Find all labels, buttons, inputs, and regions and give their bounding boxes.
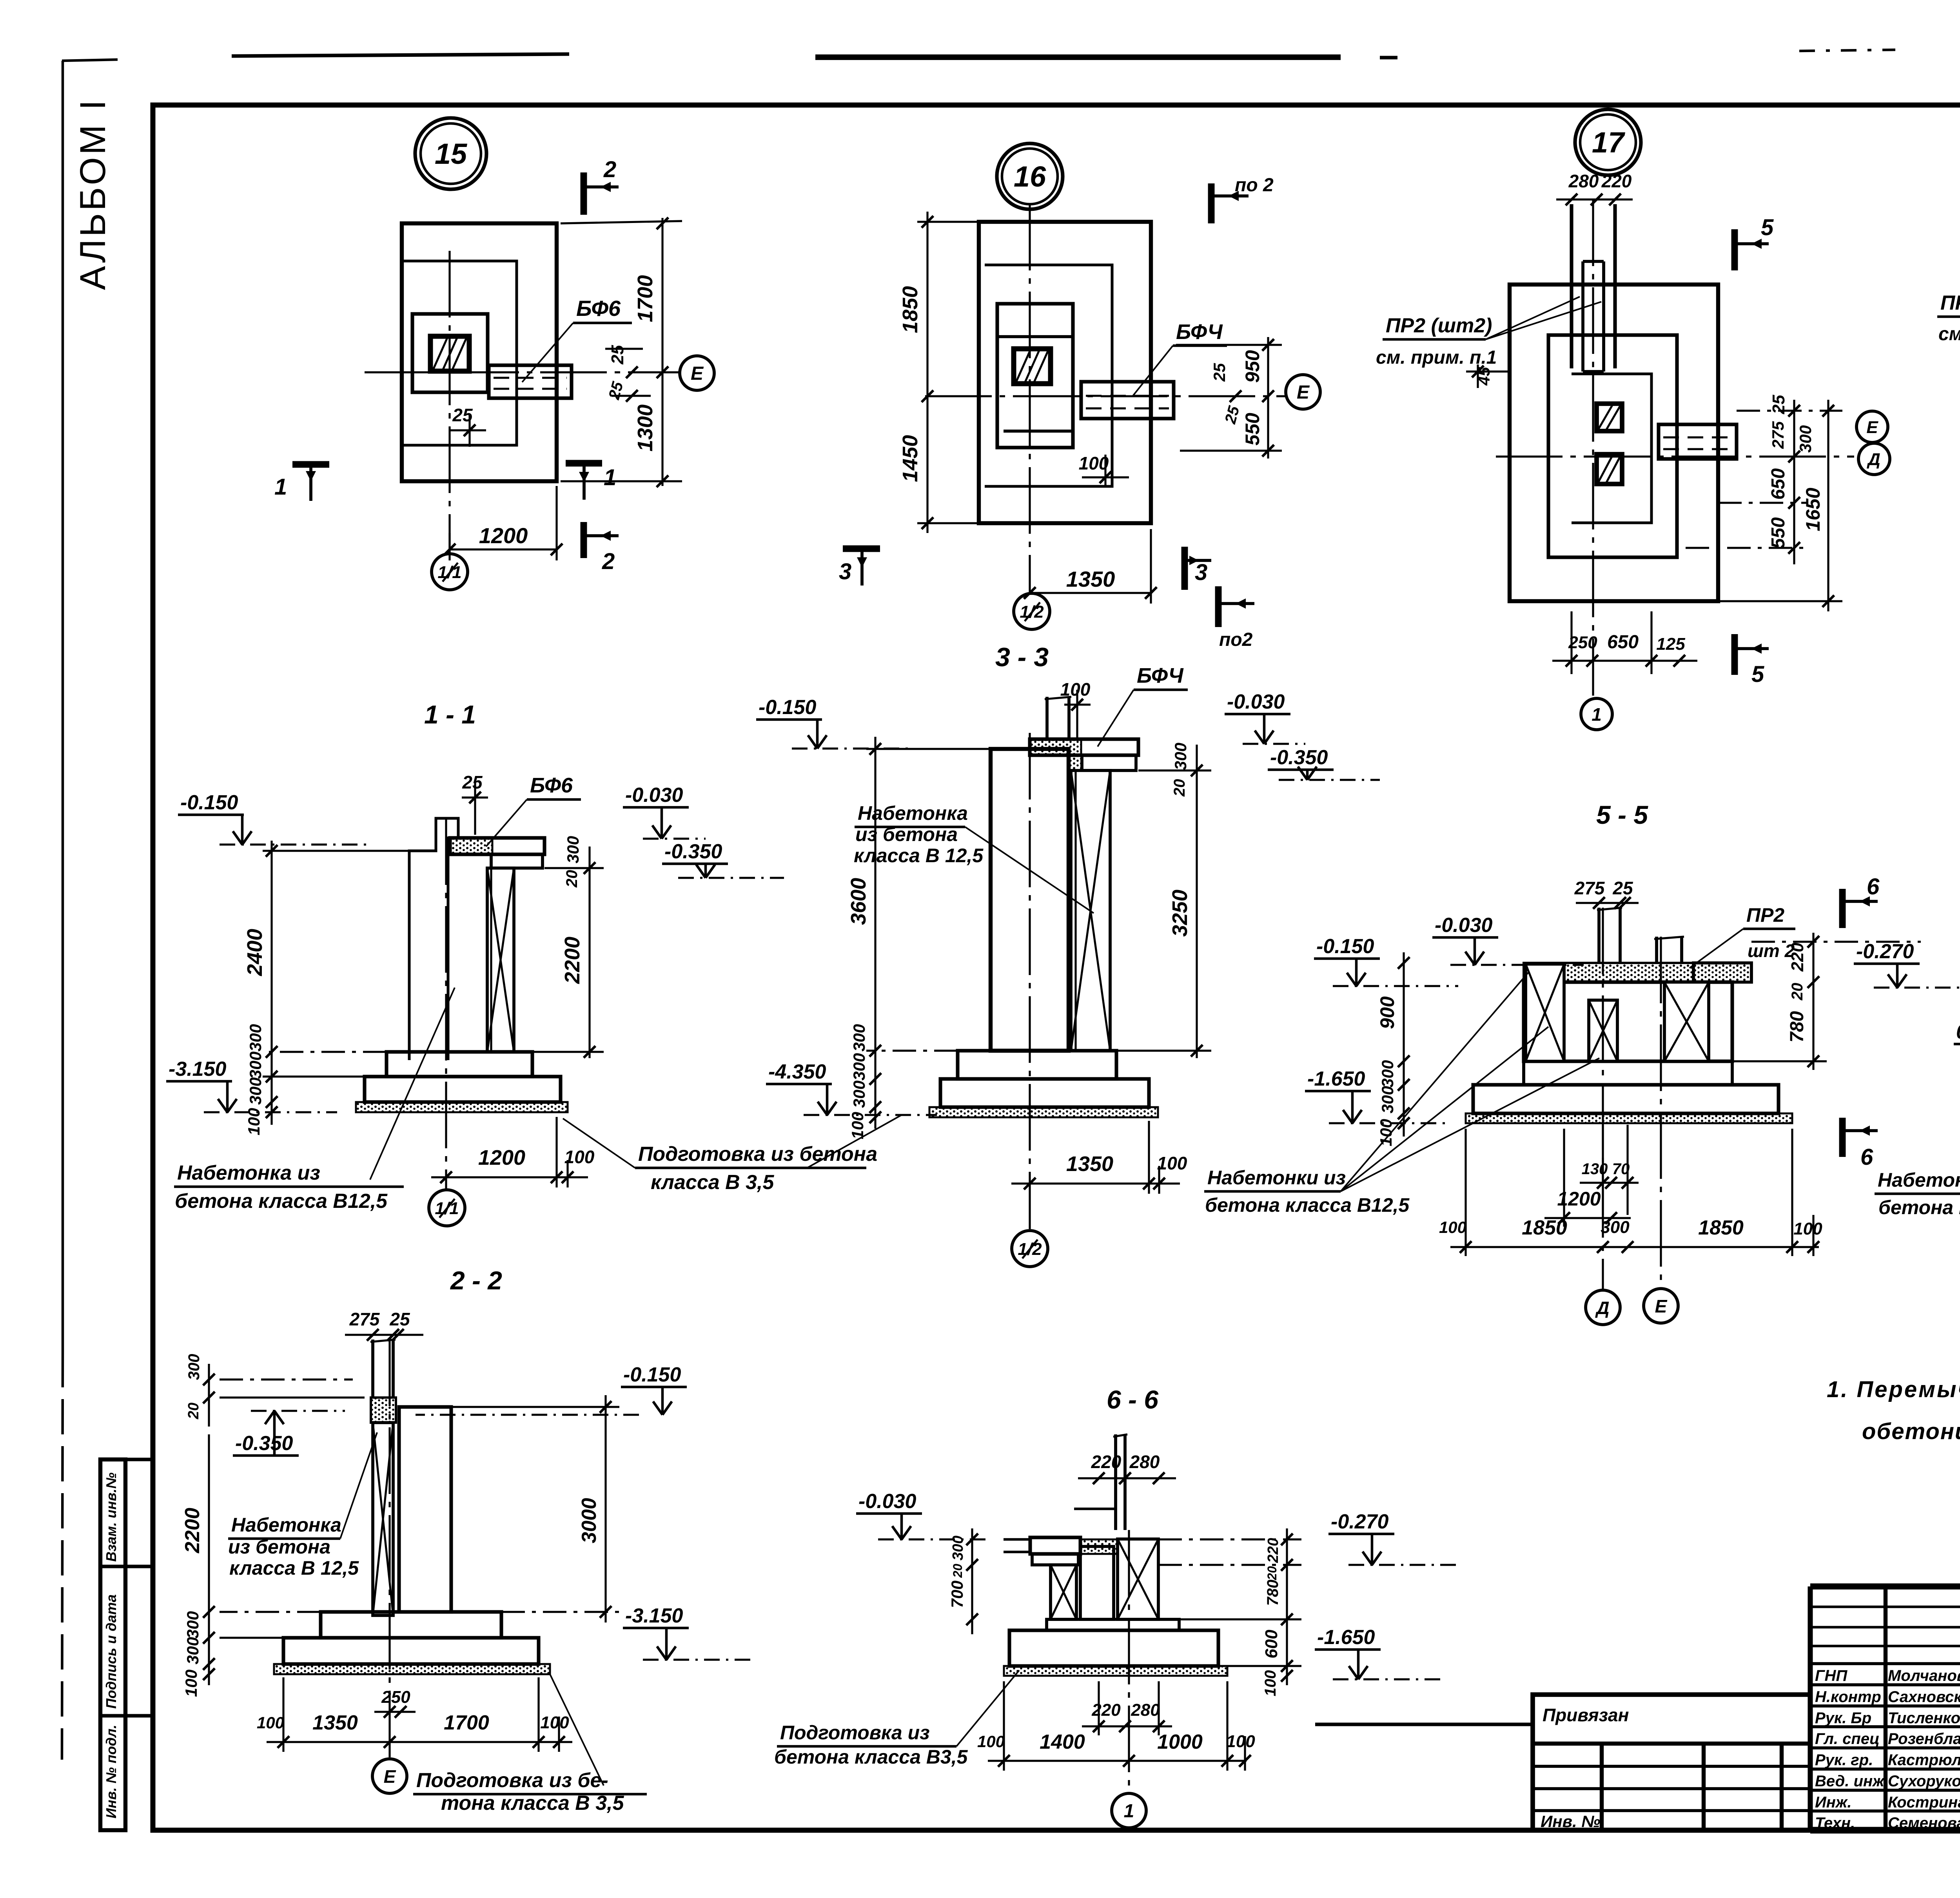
section 5-5 dim 1200 [1544, 1217, 1631, 1219]
svg-text:-3.150: -3.150 [169, 1058, 227, 1080]
svg-text:280: 280 [1568, 171, 1599, 191]
plan 15 bubble [415, 118, 486, 189]
svg-text:2200: 2200 [181, 1508, 204, 1554]
plan 16 inner step outline [997, 304, 1073, 448]
plan 15 inner step outline [412, 314, 488, 392]
section 6-6 beam left [1030, 1537, 1080, 1554]
section 3-3 bottom dim [1011, 1182, 1180, 1184]
section 6-6 right dim line [1286, 1528, 1288, 1685]
svg-text:20: 20 [185, 1403, 202, 1419]
svg-text:-1.650: -1.650 [1307, 1068, 1365, 1090]
svg-text:Рук. гр.: Рук. гр. [1815, 1751, 1873, 1769]
svg-text:Набетонки из: Набетонки из [1878, 1169, 1960, 1191]
section 1-1 beam BF6 [450, 838, 544, 854]
plan 15 dim 1700/1300 extension top [561, 221, 682, 223]
svg-text:300: 300 [1796, 425, 1815, 453]
outer thin border left [62, 61, 64, 1352]
svg-text:16: 16 [1014, 160, 1046, 193]
section 5-5 crossed col mid [1589, 1000, 1617, 1061]
svg-text:Привязан: Привязан [1543, 1705, 1629, 1725]
svg-text:Сахновская: Сахновская [1888, 1688, 1960, 1706]
outer border top-left tick [62, 60, 118, 61]
section 5-5 axis bubble E [1644, 1289, 1678, 1323]
svg-text:1700: 1700 [444, 1711, 489, 1734]
plan 17 hatched column b [1597, 454, 1622, 484]
svg-text:20: 20 [563, 870, 581, 888]
section 5-5 right dim line [1812, 933, 1814, 1070]
svg-text:300: 300 [1601, 1218, 1630, 1237]
plan 17 beam right [1659, 424, 1737, 459]
svg-text:бетона класса В3,5: бетона класса В3,5 [774, 1746, 968, 1768]
svg-text:БФ6: БФ6 [530, 774, 573, 797]
svg-text:2 - 2: 2 - 2 [450, 1266, 502, 1295]
svg-text:ПР3 (шт.2): ПР3 (шт.2) [1940, 292, 1960, 314]
svg-text:125: 125 [1656, 634, 1685, 654]
svg-text:25: 25 [462, 772, 483, 792]
svg-text:3 - 3: 3 - 3 [995, 642, 1049, 672]
svg-text:класса В 3,5: класса В 3,5 [651, 1171, 774, 1194]
svg-text:25: 25 [389, 1309, 410, 1329]
svg-text:Вед. инж: Вед. инж [1815, 1773, 1885, 1790]
svg-text:обетонировать.: обетонировать. [1862, 1419, 1960, 1444]
plan 15 axis bubble E [680, 356, 714, 390]
svg-text:100: 100 [1262, 1670, 1279, 1697]
section 2-2 narrow column [373, 1423, 393, 1615]
svg-text:1350: 1350 [312, 1711, 358, 1734]
plan 17 axis bubble E [1857, 411, 1888, 442]
svg-text:1650: 1650 [1802, 488, 1824, 531]
section 5-5 section mark 6 bottom [1839, 1118, 1846, 1157]
section 1-1 right ext lines [544, 867, 604, 869]
plan 17 anchor slot outer [1570, 204, 1573, 368]
svg-text:Кастрюлин: Кастрюлин [1888, 1751, 1960, 1769]
plan 16 left dim ext [917, 221, 979, 223]
plan 17 right dim line b [1827, 400, 1829, 611]
svg-text:Рук. Бр: Рук. Бр [1815, 1709, 1871, 1727]
svg-text:1850: 1850 [898, 286, 922, 333]
svg-text:300: 300 [950, 1535, 966, 1560]
svg-text:300: 300 [246, 1051, 265, 1079]
svg-text:-4.350: -4.350 [768, 1060, 826, 1083]
plan 16 vertical axis [1029, 204, 1031, 593]
section 5-5 base slab [1473, 1085, 1779, 1113]
svg-text:Инж.: Инж. [1815, 1794, 1852, 1811]
svg-text:Молчанов: Молчанов [1888, 1667, 1960, 1684]
section 2-2 right dim line [604, 1395, 606, 1622]
top margin dashes [1799, 50, 1895, 51]
section 3-3 column [991, 749, 1069, 1051]
svg-text:220: 220 [1265, 1538, 1281, 1563]
svg-text:100: 100 [257, 1713, 284, 1732]
top margin line segment 2 thick [815, 54, 1341, 60]
title block grid [1810, 1583, 1960, 1590]
section 1-1 base slab [365, 1077, 561, 1102]
plan 15 dim ext bottom [561, 480, 682, 482]
svg-text:100: 100 [1439, 1218, 1466, 1236]
svg-text:1: 1 [274, 474, 287, 500]
svg-text:950: 950 [1241, 350, 1263, 383]
svg-text:Набетонка: Набетонка [858, 802, 968, 824]
section 3-3 post top [1045, 697, 1049, 739]
svg-text:Набетонки из: Набетонки из [1207, 1167, 1346, 1189]
svg-text:по 2: по 2 [1235, 175, 1274, 196]
plan 15 vertical axis [448, 251, 450, 553]
svg-text:Н.контр: Н.контр [1815, 1688, 1881, 1706]
section 6-6 post [1114, 1434, 1117, 1530]
svg-text:5: 5 [1751, 662, 1764, 687]
svg-text:Тисленко: Тисленко [1888, 1709, 1960, 1727]
svg-text:-0.350: -0.350 [235, 1432, 293, 1455]
section 1-1 lean concrete layer [356, 1102, 568, 1112]
svg-text:1850: 1850 [1522, 1216, 1567, 1239]
plan 15 column hatched [430, 336, 469, 371]
svg-text:300: 300 [183, 1637, 202, 1664]
section 6-6 center column [1080, 1546, 1114, 1619]
section 3-3 lean concrete layer [929, 1107, 1158, 1117]
svg-text:550: 550 [1768, 517, 1789, 549]
plan 16 bottom dim [1030, 592, 1151, 594]
svg-text:1850: 1850 [1698, 1216, 1744, 1239]
svg-text:780: 780 [1264, 1580, 1281, 1606]
svg-text:бетона класса В12,5: бетона класса В12,5 [1205, 1194, 1410, 1216]
svg-text:АЛЬБОМ I: АЛЬБОМ I [73, 98, 113, 290]
svg-text:-0.030: -0.030 [858, 1490, 916, 1513]
svg-text:220: 220 [1091, 1700, 1121, 1720]
section 6-6 lean layer [1004, 1666, 1227, 1676]
svg-text:3: 3 [1195, 560, 1207, 585]
svg-text:-0.350: -0.350 [1270, 746, 1328, 769]
svg-text:1350: 1350 [1066, 1152, 1113, 1176]
svg-text:20: 20 [1171, 779, 1188, 797]
svg-text:100: 100 [182, 1670, 200, 1697]
section 5-5 lean layer [1466, 1113, 1792, 1123]
svg-text:-0.150: -0.150 [759, 696, 817, 719]
svg-text:Техн.: Техн. [1815, 1815, 1855, 1832]
svg-text:1: 1 [1124, 1801, 1134, 1822]
section 6-6 left dim line [971, 1528, 973, 1634]
svg-text:275: 275 [1574, 878, 1605, 898]
svg-text:Кострина: Кострина [1888, 1794, 1960, 1811]
section 5-5 crossed col right [1664, 982, 1709, 1061]
plan 17 middle step outline [1548, 335, 1677, 557]
plan 17 anchor slot inner [1581, 261, 1584, 372]
plan 15 section mark 2 top [581, 172, 587, 215]
svg-text:17: 17 [1592, 126, 1626, 159]
svg-text:тона класса В 3,5: тона класса В 3,5 [441, 1792, 624, 1815]
section 1-1 left ext lines [263, 850, 409, 852]
section 1-1 axis line [445, 818, 447, 1189]
svg-text:Е: Е [1297, 382, 1310, 403]
plan 16 beam BF4 [1081, 382, 1174, 419]
section 5-5 left dim line [1403, 952, 1405, 1137]
svg-text:Розенблат: Розенблат [1888, 1730, 1960, 1748]
svg-text:Набетонка: Набетонка [231, 1514, 341, 1536]
section 1-1 right dim line [588, 847, 590, 1058]
svg-text:300: 300 [564, 836, 582, 863]
section 5-5 cap row [1524, 963, 1751, 982]
svg-text:100: 100 [1157, 1153, 1187, 1173]
section 3-3 left ext lines [866, 748, 991, 750]
svg-text:3: 3 [839, 559, 851, 584]
svg-text:2200: 2200 [561, 937, 584, 984]
section 1-1 cap stipple [448, 839, 492, 854]
svg-text:Подготовка из: Подготовка из [780, 1722, 930, 1744]
section 2-2 step [321, 1612, 501, 1638]
plan 15 section mark 1 right [566, 460, 602, 467]
section 6-6 base slab [1009, 1630, 1218, 1666]
plan 16 left dim line [926, 212, 928, 533]
plan 16 section mark 3 right [1181, 547, 1188, 590]
svg-text:3600: 3600 [847, 878, 870, 925]
section 1-1 step [387, 1052, 532, 1077]
svg-text:600: 600 [1262, 1630, 1281, 1659]
svg-text:0.350: 0.350 [1956, 1021, 1960, 1043]
plan 17 bottom dims [1552, 660, 1697, 662]
section 3-3 base slab [940, 1079, 1149, 1107]
svg-text:6: 6 [1860, 1144, 1873, 1170]
svg-text:5: 5 [1761, 215, 1774, 240]
section 2-2 hatched cap [371, 1398, 396, 1423]
svg-text:Д: Д [1595, 1298, 1609, 1318]
plan 17 bottom ext lines [1570, 611, 1572, 674]
plan 15 beam BF6 [489, 365, 572, 398]
section 6-6 bottom dim [988, 1760, 1247, 1762]
section 1-1 left dim line [270, 841, 272, 1125]
svg-text:1000: 1000 [1157, 1731, 1203, 1753]
svg-text:Е: Е [1866, 418, 1878, 437]
svg-text:300: 300 [1171, 743, 1190, 770]
svg-text:300: 300 [850, 1080, 868, 1108]
top margin line segment 3 [1380, 56, 1397, 59]
svg-text:-0.030: -0.030 [625, 784, 683, 807]
svg-text:см. прим. п1: см. прим. п1 [1938, 324, 1960, 344]
svg-text:300: 300 [850, 1024, 868, 1051]
plan 17 bubble [1575, 109, 1641, 175]
plan 15 horizontal axis [365, 371, 680, 373]
svg-text:Е: Е [691, 363, 704, 384]
svg-text:-0.030: -0.030 [1435, 914, 1493, 937]
section 5-5 axis lines [1602, 908, 1604, 1289]
section 6-6 cap stipple [1080, 1539, 1118, 1554]
svg-text:БФЧ: БФЧ [1137, 664, 1184, 687]
svg-text:550: 550 [1241, 413, 1263, 446]
svg-text:1400: 1400 [1040, 1731, 1085, 1753]
svg-text:из бетона: из бетона [228, 1536, 330, 1558]
svg-text:Инв. №: Инв. № [1541, 1812, 1600, 1831]
svg-text:650: 650 [1607, 632, 1639, 653]
plan 15 axis bubble 1/1 [432, 554, 468, 590]
svg-text:по2: по2 [1219, 629, 1253, 650]
svg-text:300: 300 [183, 1611, 202, 1639]
plan 15 section mark 2 bottom [581, 522, 587, 558]
privyazan table grid [1533, 1695, 1810, 1830]
plan 16 horizontal axis [925, 395, 1286, 397]
svg-text:бетона класса В12,5: бетона класса В12,5 [175, 1190, 388, 1213]
section 5-5 cap blockright [1693, 963, 1751, 982]
svg-text:20: 20 [1789, 983, 1806, 1001]
svg-text:300: 300 [1378, 1086, 1397, 1113]
svg-text:1: 1 [1592, 704, 1602, 725]
svg-text:-3.150: -3.150 [625, 1604, 683, 1627]
plan 16 axis bubble E [1286, 375, 1320, 409]
top margin line segment 1 [232, 54, 569, 56]
section 5-5 bottom ext [1465, 1129, 1466, 1256]
section 6-6 axis line [1128, 1530, 1130, 1791]
plan 17 right ext lines [1737, 410, 1842, 412]
svg-text:Инв. № подл.: Инв. № подл. [103, 1725, 119, 1818]
svg-text:280: 280 [1131, 1700, 1160, 1720]
section 6-6 crossed col left [1051, 1565, 1076, 1619]
svg-text:2: 2 [602, 549, 615, 574]
svg-text:100: 100 [564, 1147, 595, 1167]
section 3-3 cap stipple [1030, 740, 1081, 755]
section 5-5 right ext [1751, 941, 1921, 943]
plan 16 column hatched [1014, 349, 1051, 384]
section 3-3 axis bubble 1/2 [1012, 1231, 1048, 1267]
section 3-3 step [958, 1051, 1116, 1079]
svg-text:3000: 3000 [578, 1498, 601, 1543]
section 3-3 right dim line [1196, 745, 1198, 1058]
svg-text:-0.270: -0.270 [1856, 940, 1914, 963]
svg-text:300: 300 [185, 1354, 203, 1380]
section 5-5 posts [1597, 908, 1601, 963]
svg-text:220: 220 [1601, 171, 1632, 191]
section 2-2 base slab [283, 1638, 539, 1664]
section 6-6 right ext [1158, 1538, 1301, 1540]
plan 17 hatched column a [1597, 404, 1622, 431]
svg-text:Взам. инв.№: Взам. инв.№ [103, 1472, 119, 1562]
svg-text:Е: Е [384, 1766, 396, 1787]
section 2-2 left small dims [208, 1364, 210, 1427]
svg-text:780: 780 [1787, 1011, 1808, 1042]
svg-text:100: 100 [1226, 1732, 1255, 1751]
plan 16 bubble [997, 143, 1063, 209]
svg-text:100: 100 [540, 1713, 569, 1732]
section 2-2 wide column [399, 1407, 451, 1612]
svg-text:ПР2 (шт2): ПР2 (шт2) [1386, 314, 1492, 337]
plan 15 middle step outline [402, 261, 517, 445]
section 3-3 axis line [1029, 733, 1031, 1229]
plan 17 axis bubble D [1858, 443, 1890, 475]
svg-text:900: 900 [1376, 996, 1398, 1029]
svg-text:220: 220 [1788, 943, 1807, 972]
svg-text:из бетона: из бетона [855, 823, 958, 845]
svg-text:Набетонка из: Набетонка из [177, 1162, 320, 1184]
svg-text:Гл. спец: Гл. спец [1815, 1730, 1880, 1748]
svg-text:1200: 1200 [479, 523, 528, 548]
section 6-6 step [1047, 1619, 1179, 1630]
section 3-3 cap stipple2 [1069, 755, 1082, 788]
plan 16 outer footing outline [979, 222, 1151, 523]
plan 16 axis bubble 1/2 [1014, 593, 1050, 629]
svg-text:-0.150: -0.150 [1316, 935, 1374, 958]
section 5-5 crossed col left [1526, 964, 1564, 1061]
plan 15 section mark 1 left [292, 461, 329, 468]
section 2-2 bottom ext [282, 1677, 284, 1752]
svg-text:Е: Е [1655, 1296, 1668, 1316]
section 3-3 beam BF4 [1030, 739, 1138, 755]
svg-text:6: 6 [1867, 874, 1880, 899]
left strip grid [100, 1459, 125, 1830]
plan 16 right dims ext [1176, 344, 1282, 346]
svg-text:-0.350: -0.350 [664, 840, 722, 863]
section 6-6 bottom ext [1003, 1681, 1005, 1771]
svg-text:2400: 2400 [243, 929, 267, 976]
svg-text:1200: 1200 [478, 1146, 525, 1169]
svg-text:-0.150: -0.150 [623, 1363, 681, 1386]
svg-text:Подготовка из бетона: Подготовка из бетона [638, 1143, 877, 1166]
svg-text:6 - 6: 6 - 6 [1107, 1385, 1159, 1414]
svg-text:бетона класса В12,5: бетона класса В12,5 [1878, 1196, 1960, 1218]
svg-text:-1.650: -1.650 [1317, 1626, 1375, 1649]
section 2-2 lean layer [274, 1664, 550, 1674]
svg-text:20: 20 [951, 1564, 965, 1578]
svg-text:Подпись и дата: Подпись и дата [103, 1594, 119, 1709]
section 2-2 axis bubble E [372, 1759, 407, 1793]
svg-text:300: 300 [246, 1024, 265, 1051]
svg-text:300: 300 [246, 1077, 265, 1105]
section 5-5 axis bubble D [1586, 1290, 1620, 1325]
section 1-1 axis bubble 1/1 [429, 1190, 465, 1226]
svg-text:1 - 1: 1 - 1 [424, 700, 476, 729]
section 1-1 crossed column [487, 868, 514, 1052]
svg-text:275: 275 [349, 1309, 380, 1329]
svg-text:1350: 1350 [1066, 567, 1115, 591]
plan 17 outer footing outline [1510, 285, 1718, 601]
plan 17 vertical axis [1592, 199, 1594, 696]
svg-text:250: 250 [381, 1688, 410, 1707]
section 6-6 crossed col right [1118, 1539, 1158, 1619]
svg-text:100: 100 [977, 1732, 1005, 1751]
plan 17 horizontal axis [1496, 455, 1854, 457]
svg-text:класса В 12,5: класса В 12,5 [229, 1557, 359, 1579]
svg-text:-0.270: -0.270 [1331, 1510, 1389, 1533]
section 5-5 bottom dim [1450, 1246, 1819, 1248]
svg-text:3250: 3250 [1168, 890, 1192, 937]
svg-text:класса В 12,5: класса В 12,5 [854, 845, 984, 867]
svg-text:Сухорукова: Сухорукова [1888, 1773, 1960, 1790]
svg-text:БФ6: БФ6 [576, 296, 621, 321]
svg-text:ПР2: ПР2 [1746, 904, 1784, 926]
section 2-2 right ext [451, 1406, 619, 1408]
svg-text:2: 2 [603, 157, 616, 182]
plan 16 middle step outline [985, 265, 1112, 486]
plan 16 section mark po2 top [1208, 183, 1215, 223]
section 5-5 body outline [1524, 982, 1732, 1061]
svg-text:25: 25 [1210, 363, 1229, 382]
section 3-3 crossed column [1071, 770, 1110, 1051]
plan 16 section mark po2 bottom [1215, 586, 1222, 627]
svg-text:1450: 1450 [898, 435, 922, 482]
plan 15 dim right line [661, 218, 663, 486]
svg-text:20: 20 [1265, 1566, 1279, 1581]
svg-text:1700: 1700 [633, 275, 657, 322]
section 6-6 axis bubble 1 [1112, 1793, 1146, 1828]
svg-text:ГНП: ГНП [1815, 1667, 1847, 1684]
section 3-3 left dim line [874, 737, 876, 1129]
svg-text:БФЧ: БФЧ [1176, 320, 1223, 344]
svg-text:100: 100 [1079, 453, 1109, 473]
svg-text:Подготовка из бе-: Подготовка из бе- [416, 1769, 608, 1792]
plan 17 section mark 5 bottom [1731, 634, 1738, 675]
svg-text:5 - 5: 5 - 5 [1596, 800, 1648, 829]
svg-text:1. Перемычки марок ПР2 и П: 1. Перемычки марок ПР2 и ПР3 обернуть се… [1827, 1377, 1960, 1402]
svg-text:300: 300 [850, 1053, 868, 1080]
plan 17 right dim line a [1793, 400, 1795, 564]
section 2-2 post [371, 1340, 374, 1398]
section 2-2 bottom dim [267, 1741, 572, 1743]
section 3-3 right ext lines [1138, 769, 1211, 771]
